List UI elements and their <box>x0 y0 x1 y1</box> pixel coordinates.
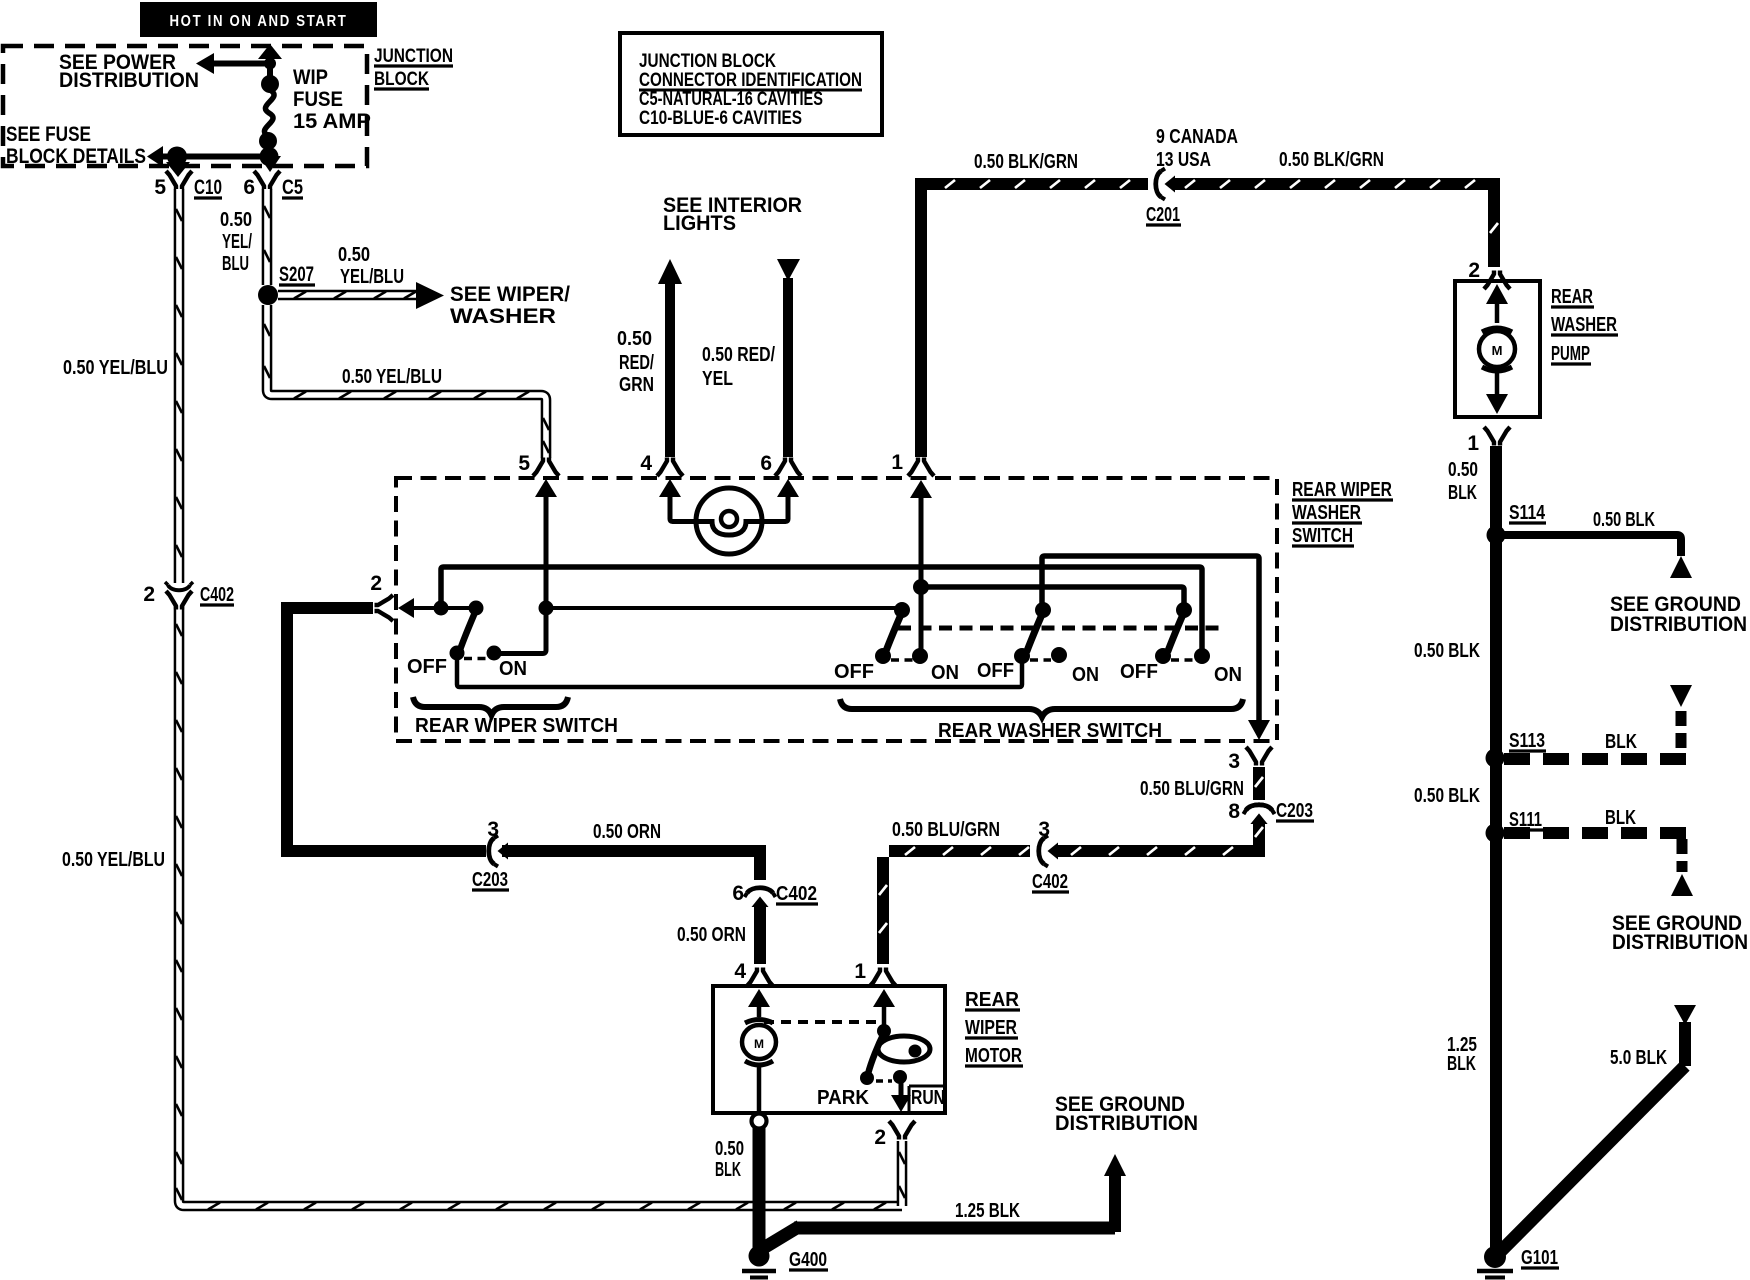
svg-text:OFF: OFF <box>407 656 447 678</box>
svg-text:0.50 BLU/GRN: 0.50 BLU/GRN <box>1140 778 1244 800</box>
svg-text:8: 8 <box>1228 800 1240 823</box>
svg-text:ON: ON <box>499 658 527 680</box>
svg-text:DISTRIBUTION: DISTRIBUTION <box>1610 613 1747 636</box>
svg-text:BLOCK: BLOCK <box>374 69 429 90</box>
svg-text:0.50 YEL/BLU: 0.50 YEL/BLU <box>342 366 442 388</box>
svg-text:0.50 BLK: 0.50 BLK <box>1414 640 1480 662</box>
svg-text:0.50 BLK/GRN: 0.50 BLK/GRN <box>1279 149 1384 171</box>
svg-text:13 USA: 13 USA <box>1156 149 1211 171</box>
svg-text:REAR: REAR <box>1551 286 1593 308</box>
svg-text:15 AMP: 15 AMP <box>293 110 371 133</box>
svg-text:0.50 BLK: 0.50 BLK <box>1593 509 1655 531</box>
svg-text:0.50 ORN: 0.50 ORN <box>677 924 746 946</box>
svg-text:YEL/BLU: YEL/BLU <box>340 266 404 288</box>
svg-text:REAR WIPER: REAR WIPER <box>1292 479 1392 501</box>
svg-text:WASHER: WASHER <box>450 305 556 328</box>
svg-text:3: 3 <box>1038 818 1050 841</box>
svg-text:WIP: WIP <box>293 66 328 89</box>
svg-text:DISTRIBUTION: DISTRIBUTION <box>59 69 199 92</box>
svg-text:C402: C402 <box>1032 871 1068 893</box>
svg-text:0.50 YEL/BLU: 0.50 YEL/BLU <box>62 849 165 871</box>
svg-text:S114: S114 <box>1509 502 1546 524</box>
svg-text:5.0 BLK: 5.0 BLK <box>1610 1047 1667 1069</box>
svg-text:C402: C402 <box>200 584 234 606</box>
svg-text:BLK: BLK <box>1448 482 1477 504</box>
svg-text:G101: G101 <box>1521 1247 1558 1269</box>
svg-text:0.50 YEL/BLU: 0.50 YEL/BLU <box>63 357 168 379</box>
svg-text:3: 3 <box>1228 750 1240 773</box>
svg-text:C10-BLUE-6 CAVITIES: C10-BLUE-6 CAVITIES <box>639 108 802 129</box>
svg-text:BLOCK DETAILS: BLOCK DETAILS <box>6 145 146 168</box>
svg-text:LIGHTS: LIGHTS <box>663 212 736 235</box>
svg-text:6: 6 <box>243 176 255 199</box>
svg-text:2: 2 <box>370 572 382 595</box>
svg-text:0.50 ORN: 0.50 ORN <box>593 821 661 843</box>
svg-text:RUN: RUN <box>911 1087 945 1109</box>
svg-text:1: 1 <box>1467 432 1479 455</box>
svg-text:1: 1 <box>891 451 903 474</box>
svg-text:REAR WASHER SWITCH: REAR WASHER SWITCH <box>938 720 1162 742</box>
svg-text:ON: ON <box>1214 664 1242 686</box>
svg-text:6: 6 <box>732 882 744 905</box>
svg-text:BLK: BLK <box>715 1159 741 1181</box>
svg-text:C10: C10 <box>194 176 222 199</box>
svg-text:0.50: 0.50 <box>617 328 652 350</box>
svg-text:1: 1 <box>854 960 866 983</box>
svg-text:JUNCTION BLOCK: JUNCTION BLOCK <box>639 51 776 72</box>
svg-text:ON: ON <box>931 662 959 684</box>
svg-text:REAR WIPER SWITCH: REAR WIPER SWITCH <box>415 715 618 737</box>
svg-text:RED/: RED/ <box>619 352 654 374</box>
svg-text:FUSE: FUSE <box>293 88 343 111</box>
svg-text:CONNECTOR IDENTIFICATION: CONNECTOR IDENTIFICATION <box>639 70 862 91</box>
svg-text:4: 4 <box>640 452 652 475</box>
svg-text:6: 6 <box>760 452 772 475</box>
svg-text:WIPER: WIPER <box>965 1017 1017 1039</box>
svg-text:JUNCTION: JUNCTION <box>374 46 453 67</box>
svg-text:3: 3 <box>487 818 499 841</box>
svg-text:0.50 BLU/GRN: 0.50 BLU/GRN <box>892 819 1000 841</box>
svg-text:S113: S113 <box>1509 730 1545 752</box>
svg-text:GRN: GRN <box>619 374 654 396</box>
svg-text:YEL/: YEL/ <box>222 231 252 253</box>
svg-text:HOT IN ON AND START: HOT IN ON AND START <box>170 13 348 30</box>
svg-text:0.50 BLK/GRN: 0.50 BLK/GRN <box>974 151 1078 173</box>
svg-text:BLK: BLK <box>1447 1053 1476 1075</box>
svg-text:0.50 RED/: 0.50 RED/ <box>702 344 775 366</box>
svg-text:M: M <box>1492 343 1503 358</box>
svg-text:1.25 BLK: 1.25 BLK <box>955 1200 1020 1222</box>
svg-text:YEL: YEL <box>702 368 733 390</box>
svg-text:SWITCH: SWITCH <box>1292 525 1353 547</box>
svg-text:C5: C5 <box>282 176 303 199</box>
svg-text:2: 2 <box>143 583 155 606</box>
svg-text:C203: C203 <box>1276 800 1313 822</box>
svg-text:5: 5 <box>518 452 530 475</box>
svg-text:REAR: REAR <box>965 989 1020 1011</box>
svg-text:S207: S207 <box>279 263 314 286</box>
svg-text:4: 4 <box>734 960 746 983</box>
svg-text:DISTRIBUTION: DISTRIBUTION <box>1055 1112 1198 1135</box>
svg-text:OFF: OFF <box>977 660 1014 682</box>
svg-text:C402: C402 <box>776 883 817 905</box>
svg-text:BLK: BLK <box>1605 807 1636 829</box>
svg-text:C201: C201 <box>1146 204 1180 226</box>
svg-text:5: 5 <box>154 176 166 199</box>
svg-text:C203: C203 <box>472 869 508 891</box>
svg-text:MOTOR: MOTOR <box>965 1045 1022 1067</box>
svg-text:SEE FUSE: SEE FUSE <box>6 123 91 146</box>
svg-text:DISTRIBUTION: DISTRIBUTION <box>1612 931 1748 954</box>
svg-text:WASHER: WASHER <box>1292 502 1361 524</box>
svg-text:OFF: OFF <box>834 661 874 683</box>
svg-text:0.50: 0.50 <box>715 1138 744 1160</box>
svg-text:M: M <box>754 1037 764 1051</box>
svg-text:9 CANADA: 9 CANADA <box>1156 126 1238 148</box>
svg-text:ON: ON <box>1072 664 1099 686</box>
svg-text:PARK: PARK <box>817 1087 870 1109</box>
svg-text:G400: G400 <box>789 1249 827 1271</box>
svg-text:PUMP: PUMP <box>1551 343 1590 365</box>
svg-text:0.50: 0.50 <box>220 209 252 231</box>
svg-text:2: 2 <box>1468 259 1480 282</box>
svg-text:2: 2 <box>874 1126 886 1149</box>
svg-text:C5-NATURAL-16 CAVITIES: C5-NATURAL-16 CAVITIES <box>639 89 823 110</box>
svg-text:BLK: BLK <box>1605 731 1637 753</box>
svg-text:BLU: BLU <box>222 253 249 275</box>
svg-text:0.50: 0.50 <box>1448 459 1478 481</box>
svg-text:0.50 BLK: 0.50 BLK <box>1414 785 1480 807</box>
svg-text:OFF: OFF <box>1120 661 1158 683</box>
svg-text:SEE WIPER/: SEE WIPER/ <box>450 283 570 306</box>
svg-text:WASHER: WASHER <box>1551 314 1617 336</box>
svg-text:0.50: 0.50 <box>338 244 370 266</box>
